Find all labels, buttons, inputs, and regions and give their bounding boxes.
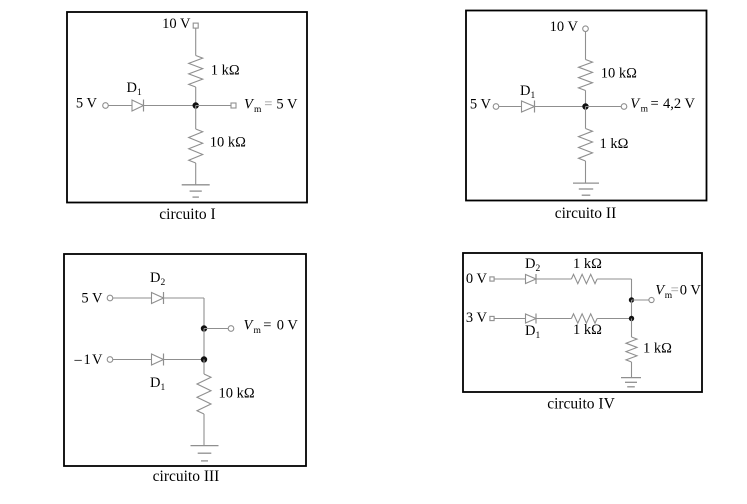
wire — [113, 297, 152, 299]
svg-text:Vm=0 V: Vm=0 V — [244, 318, 299, 337]
svg-text:10 V: 10 V — [550, 19, 579, 35]
terminal Vm (circuit IV) — [649, 297, 654, 302]
wire — [144, 105, 196, 107]
svg-text:10 kΩ: 10 kΩ — [210, 135, 246, 151]
wire — [585, 161, 587, 183]
wire — [536, 318, 571, 320]
svg-text:1 kΩ: 1 kΩ — [211, 63, 240, 79]
wire — [203, 414, 205, 446]
terminal 0 V (circuit IV) — [490, 277, 494, 281]
terminal -1 V (circuit III) — [107, 357, 113, 363]
terminal Vm (circuit I) — [231, 103, 236, 108]
svg-text:1 kΩ: 1 kΩ — [573, 322, 602, 338]
svg-text:circuito IV: circuito IV — [547, 395, 615, 412]
node lower junction (circuit IV) — [629, 316, 634, 321]
diode D1 (circuit II) — [522, 101, 535, 113]
svg-text:0 V: 0 V — [466, 271, 488, 287]
wire — [631, 300, 633, 319]
wire — [195, 163, 197, 185]
wire — [631, 319, 633, 338]
resistor 1 k&#937; (circuit I top) — [189, 56, 203, 88]
wire — [535, 106, 586, 108]
svg-text:10 kΩ: 10 kΩ — [601, 66, 637, 82]
svg-text:Vm=5 V: Vm=5 V — [244, 96, 298, 115]
svg-text:1 kΩ: 1 kΩ — [600, 136, 629, 152]
diode D2 (circuit IV) — [526, 274, 537, 284]
terminal 10 V (circuit I) — [193, 23, 198, 28]
resistor 10 k&#937; (circuit I bottom) — [189, 129, 203, 163]
wire — [536, 278, 571, 280]
wire — [499, 106, 522, 108]
node Vm junction (circuit IV) — [629, 297, 634, 302]
resistor 1 k&#937; (circuit IV row 2) — [571, 314, 597, 323]
svg-text:1 kΩ: 1 kΩ — [643, 341, 672, 357]
svg-text:–1V: –1V — [74, 352, 104, 368]
svg-text:circuito III: circuito III — [153, 468, 220, 485]
node Vm junction (circuit I) — [193, 102, 199, 108]
wire — [597, 278, 631, 280]
terminal 3 V (circuit IV) — [490, 316, 494, 320]
terminal 5 V (circuit II) — [493, 104, 499, 110]
node lower junction (circuit III) — [201, 356, 207, 362]
resistor 1 k&#937; (circuit II bottom) — [579, 129, 593, 162]
svg-text:5 V: 5 V — [81, 291, 103, 307]
wire — [585, 91, 587, 107]
wire — [586, 106, 622, 108]
circuit I bounding box — [67, 12, 307, 203]
svg-text:3 V: 3 V — [466, 310, 488, 326]
node Vm junction (circuit II) — [582, 103, 588, 109]
terminal Vm (circuit III) — [228, 326, 234, 332]
resistor 1 k&#937; (circuit IV row 1) — [571, 274, 597, 283]
circuit III bounding box — [64, 254, 306, 466]
svg-text:10 V: 10 V — [162, 16, 191, 32]
svg-text:circuito II: circuito II — [555, 205, 617, 222]
wire — [631, 279, 633, 300]
svg-text:Vm=0 V: Vm=0 V — [655, 282, 701, 301]
wire — [494, 318, 525, 320]
svg-text:10 kΩ: 10 kΩ — [219, 386, 255, 402]
wire — [203, 360, 205, 375]
terminal 10 V (circuit II) — [583, 26, 589, 32]
wire — [204, 328, 228, 330]
wire — [631, 362, 633, 378]
diode D2 (circuit III) — [152, 292, 164, 304]
diode D1 (circuit IV) — [526, 314, 537, 324]
wire — [195, 106, 197, 130]
wire — [113, 359, 152, 361]
svg-text:circuito I: circuito I — [159, 206, 215, 223]
svg-text:1 kΩ: 1 kΩ — [573, 256, 602, 272]
wire — [203, 298, 205, 329]
resistor 1 k&#937; (circuit IV vertical) — [626, 337, 637, 362]
resistor 10 k&#937; (circuit III) — [197, 374, 211, 414]
ground (circuit III) — [191, 446, 219, 461]
wire — [108, 105, 132, 107]
svg-text:5 V: 5 V — [76, 96, 98, 112]
wire — [195, 28, 197, 55]
terminal 5 V (circuit I) — [103, 103, 109, 109]
diode D1 (circuit I) — [132, 100, 144, 112]
wire — [203, 329, 205, 360]
wire — [585, 32, 587, 60]
ground (circuit II) — [573, 183, 599, 195]
wire — [164, 297, 205, 299]
wire — [494, 278, 525, 280]
diode D1 (circuit III) — [152, 354, 164, 366]
resistor 10 k&#937; (circuit II top) — [579, 60, 593, 91]
node Vm junction (circuit III) — [201, 325, 207, 331]
wire — [597, 318, 631, 320]
wire — [632, 299, 649, 301]
wire — [196, 105, 231, 107]
ground (circuit I) — [182, 185, 210, 197]
terminal Vm (circuit II) — [621, 104, 627, 110]
wire — [585, 107, 587, 129]
circuit IV bounding box — [463, 253, 702, 392]
svg-text:5 V: 5 V — [470, 97, 492, 113]
wire — [164, 359, 205, 361]
terminal 5 V (circuit III) — [107, 295, 113, 301]
ground (circuit IV) — [621, 378, 641, 387]
circuit II bounding box — [466, 11, 707, 201]
wire — [195, 87, 197, 106]
